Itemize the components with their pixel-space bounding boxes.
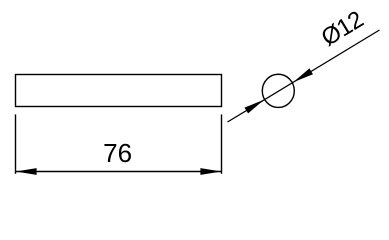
svg-text:Ø12: Ø12: [317, 6, 368, 52]
circle (hole): [262, 74, 294, 107]
leader line: [228, 30, 380, 122]
leader arrowhead upper-right: [293, 68, 313, 82]
arrowhead left: [16, 168, 37, 175]
extension line right: [221, 114, 223, 173]
extension line left: [15, 114, 17, 173]
leader arrowhead lower-left: [245, 100, 265, 114]
dimension line 76: [16, 171, 222, 173]
rectangle (front view of part): [16, 75, 222, 107]
svg-text:76: 76: [103, 138, 132, 168]
arrowhead right: [200, 168, 221, 175]
